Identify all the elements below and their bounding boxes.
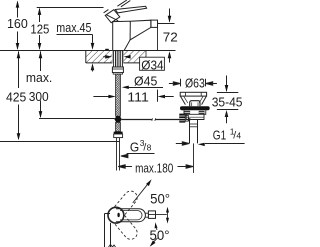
svg-text:8: 8 <box>147 143 152 153</box>
svg-text:max.: max. <box>26 70 52 85</box>
lever handle blade <box>115 6 146 13</box>
dim 111 left arrow <box>108 95 115 98</box>
svg-text:125: 125 <box>30 22 49 37</box>
svg-text:Ø45: Ø45 <box>134 74 157 89</box>
dim Ø34 arrow left <box>105 55 112 59</box>
deck slab left edge <box>85 51 87 63</box>
dim 35-45 arrow down <box>225 85 229 92</box>
dim 425 ref line <box>0 141 120 143</box>
lever raised ghost line 2 <box>121 1 130 7</box>
svg-text:max.45: max.45 <box>56 20 91 35</box>
dim 160 line <box>17 2 19 49</box>
svg-text:425: 425 <box>6 89 26 104</box>
dim 35-45 arrow up <box>225 110 229 117</box>
body spout joint <box>129 21 131 40</box>
rotation arrow lower head <box>150 240 156 246</box>
dim max300 arrow down <box>39 111 43 118</box>
waste port right stripe <box>199 111 204 113</box>
rod knurl stripes <box>180 116 186 121</box>
dim max180 right arrow <box>178 165 194 168</box>
dashed capsule lower <box>115 215 140 242</box>
top view neck lines <box>145 213 148 217</box>
tailpipe axis <box>193 143 195 173</box>
funnel cone inner right <box>199 96 203 103</box>
dim max300 ref line <box>39 118 115 120</box>
svg-text:G: G <box>130 140 139 155</box>
dim max300 line <box>40 51 42 117</box>
swing arrow up head <box>166 207 169 213</box>
rotation arrow capsule bottom tail <box>155 227 158 230</box>
dim 72 upper shaft <box>169 9 171 22</box>
waste lower body line <box>186 116 204 118</box>
waste flange <box>180 106 210 110</box>
swing arrow down head <box>166 218 169 224</box>
dim Ø45 leader arrow <box>122 86 129 89</box>
dim Ø45 underline <box>128 87 164 89</box>
svg-text:35-45: 35-45 <box>212 95 243 110</box>
lever ghost stroke left <box>104 10 109 13</box>
plug head inner left <box>185 92 187 96</box>
top view spout capsule <box>116 209 145 222</box>
rotation arrow lower line <box>154 238 158 242</box>
rod clamp arrow <box>188 118 192 121</box>
label G3/8 underline <box>127 153 155 155</box>
waste port right <box>199 111 205 114</box>
G3/8 nut body <box>114 134 123 138</box>
deck top reference line <box>0 50 176 52</box>
top view base circle <box>108 207 124 223</box>
dim Ø63 left tick <box>180 79 182 87</box>
deck hole right edge <box>122 51 124 63</box>
dim max300 arrow up <box>39 51 43 58</box>
mounting nut <box>112 67 123 73</box>
lever front block <box>105 10 120 23</box>
dim 35-45 lower ref line <box>217 109 238 111</box>
svg-text:max.180: max.180 <box>135 160 173 175</box>
waste upper body band <box>184 110 206 114</box>
svg-text:72: 72 <box>163 30 178 45</box>
dim 160 arrow up <box>16 1 20 8</box>
svg-text:Ø63: Ø63 <box>185 76 205 91</box>
pop-up rod knob at rear <box>105 49 109 51</box>
dim 125 top ref line <box>37 7 104 9</box>
washer <box>113 73 122 75</box>
dim 111 right arrow <box>158 95 165 98</box>
svg-text:160: 160 <box>7 16 28 31</box>
spout outlet extension line <box>157 28 159 51</box>
funnel cone left <box>180 96 185 105</box>
deck slab hatch right <box>123 51 146 63</box>
top view capsule inner line <box>120 211 142 220</box>
waste port left <box>184 111 190 114</box>
hose axis pipe <box>117 138 120 171</box>
dim Ø63 right tick <box>205 79 207 87</box>
dim 425 arrow down <box>17 133 21 140</box>
waste lower body <box>186 114 204 119</box>
dim Ø63 left arrow <box>169 82 180 85</box>
plug stem tower <box>190 101 200 107</box>
svg-text:G1: G1 <box>213 128 226 143</box>
supply hose braid lower <box>116 122 121 131</box>
plug head inner right <box>200 92 202 96</box>
deck slab right edge <box>145 51 147 63</box>
dim 72 ref line <box>157 23 174 25</box>
dim Ø63 right arrow <box>206 82 217 85</box>
dim 35-45 upper ref line <box>217 92 238 94</box>
dim 125 arrow up <box>38 8 42 15</box>
label G3/8 leader arrow <box>121 154 128 158</box>
svg-text:300: 300 <box>29 89 49 104</box>
dim max45 drop line <box>92 35 94 43</box>
dim max180 left arrow <box>118 165 132 168</box>
dim 111 right tail <box>164 96 174 98</box>
dim 425 arrow up <box>17 51 21 58</box>
dim 72 lower shaft <box>169 55 171 63</box>
bottom cut marks <box>109 245 116 247</box>
deck hole left edge <box>111 51 113 63</box>
dim 111 left tail <box>93 96 109 98</box>
rod knurled adjuster <box>179 114 185 123</box>
deck slab hatch left <box>86 51 113 63</box>
G3/8 nut dark band top <box>114 132 123 134</box>
top view handle axis line <box>148 214 166 216</box>
dim Ø34 arrow right <box>124 55 131 59</box>
dim 111 right tick <box>157 90 159 102</box>
ball joint <box>114 116 121 122</box>
supply hose braid upper <box>116 74 121 116</box>
rotation arrow capsule bottom head <box>155 222 158 228</box>
top view extension line right <box>110 223 112 247</box>
svg-text:Ø34: Ø34 <box>141 57 163 72</box>
tailpipe thread line 2 <box>190 126 197 128</box>
faucet body <box>113 20 151 50</box>
top view extension line left <box>105 214 111 247</box>
dim 160 arrow down <box>16 43 20 50</box>
top view handle square <box>148 211 155 219</box>
dim G1 left pointer <box>176 142 190 145</box>
plug stem tower inner <box>192 102 198 106</box>
funnel cone inner left <box>184 96 188 103</box>
threaded shank <box>114 51 123 67</box>
dim 35-45 upper shaft <box>226 76 228 92</box>
aerator box <box>151 20 158 27</box>
deck bottom line <box>86 62 146 64</box>
dim max45 lower shaft <box>92 66 94 72</box>
dim max45 underline <box>57 34 93 36</box>
svg-text:4: 4 <box>236 130 241 140</box>
funnel cone right <box>202 96 207 105</box>
rod adjuster collar <box>185 115 188 121</box>
dim 125 arrow down <box>38 43 42 50</box>
svg-text:50°: 50° <box>150 191 170 207</box>
lever raised ghost line 1 <box>117 0 127 6</box>
dashed capsule upper <box>115 188 140 215</box>
pop-up rod horizontal <box>122 119 180 121</box>
dim 72 arrow up <box>168 51 172 58</box>
dim 425 line <box>18 51 20 139</box>
dim 72 arrow down <box>168 16 172 23</box>
tailpipe <box>190 120 198 144</box>
svg-text:50°: 50° <box>150 227 170 243</box>
rotation arrow upper line <box>133 184 148 203</box>
swing double arrow line <box>167 210 169 220</box>
dim max45 arrow down <box>91 43 95 50</box>
label Ø34 box <box>140 57 165 70</box>
top view lever pin <box>117 213 119 217</box>
rotation arrow upper head <box>146 179 152 186</box>
lever inner diagonal <box>107 15 119 21</box>
svg-text:111: 111 <box>127 90 149 105</box>
drain plug head <box>180 92 206 96</box>
dim Ø34 arrow left tail <box>103 56 108 58</box>
tailpipe thread line 1 <box>190 123 197 125</box>
rod break ticks <box>152 118 156 121</box>
mounting nut line <box>112 68 123 70</box>
dim max45 arrow up below deck <box>91 63 95 70</box>
dim 35-45 lower shaft <box>226 114 228 124</box>
dim 125 line <box>39 9 41 49</box>
waste port left stripe <box>185 111 190 113</box>
label G1 1/4 underline <box>205 143 245 145</box>
label G1 1/4 leader arrow <box>198 143 205 146</box>
